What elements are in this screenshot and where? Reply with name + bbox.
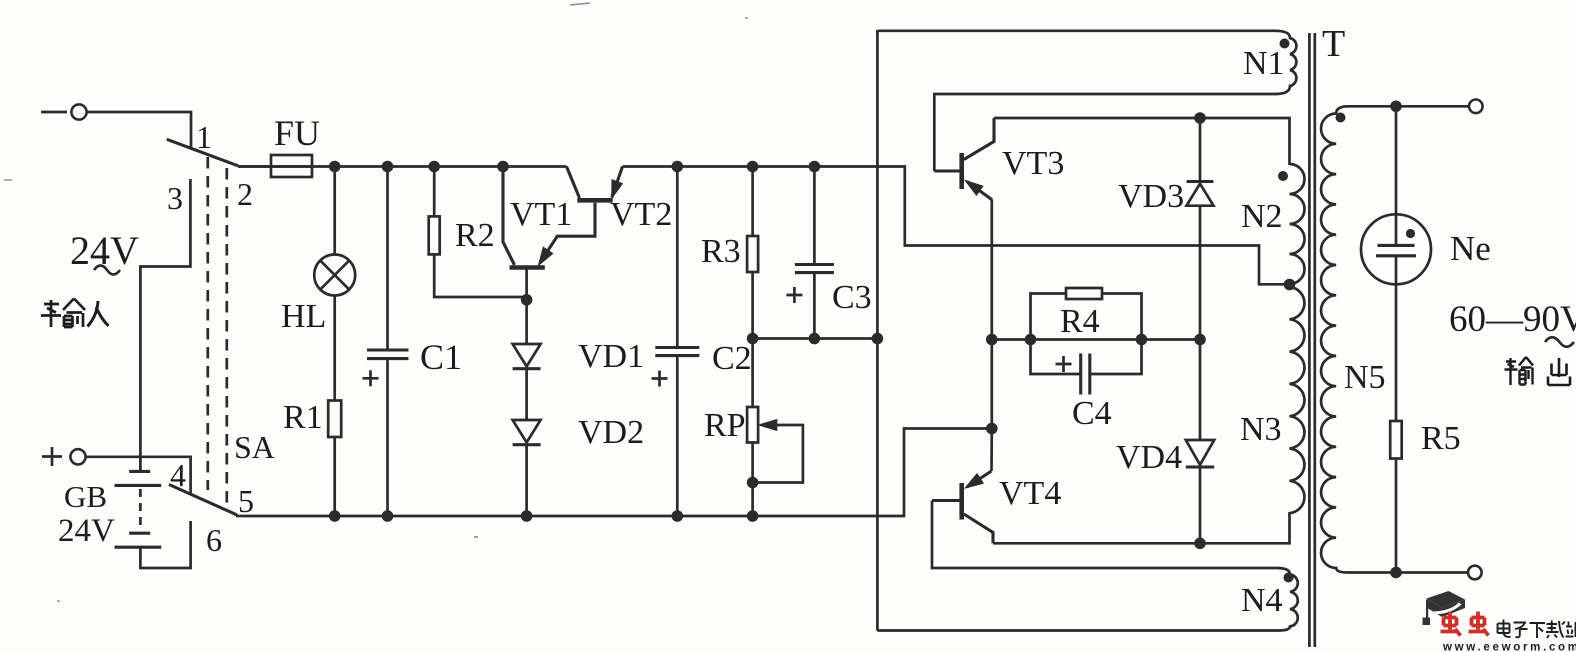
terminal output bottom (1468, 566, 1482, 580)
junction dot Ne top (1390, 101, 1402, 113)
wire VT4 collector rail to N3 bottom (993, 512, 1290, 543)
capacitor C2 (652, 167, 700, 517)
resistor R4 loop (1031, 288, 1142, 340)
resistor R1 (328, 401, 341, 517)
svg-text:VT3: VT3 (1002, 145, 1064, 182)
potentiometer RP (747, 339, 803, 517)
svg-text:R1: R1 (283, 399, 323, 436)
terminal output top (1469, 100, 1483, 114)
switch SA blade bottom (169, 485, 236, 517)
svg-text:6: 6 (206, 522, 222, 558)
svg-text:60—90V: 60—90V (1449, 299, 1576, 340)
winding N2 (1290, 164, 1305, 284)
capacitor C4 loop (1031, 340, 1142, 395)
svg-text:5: 5 (238, 483, 254, 519)
tilde 60-90V (1545, 337, 1574, 347)
svg-text:VD4: VD4 (1116, 439, 1182, 476)
core line left (1308, 33, 1311, 647)
feedback box left vertical (876, 30, 879, 631)
label shu input chinese (41, 299, 85, 328)
svg-text:4: 4 (170, 457, 186, 493)
junction dot N2 N3 tap (1284, 279, 1296, 291)
bottom rail (236, 429, 992, 517)
svg-text:VT4: VT4 (999, 475, 1061, 512)
watermark chongchong red (1441, 612, 1489, 636)
svg-text:R4: R4 (1060, 303, 1100, 340)
junction dot R5 bottom (1390, 567, 1402, 579)
mid rail right (992, 338, 1200, 341)
svg-text:R5: R5 (1421, 420, 1461, 457)
diode VD3 (1187, 118, 1214, 340)
svg-text:N5: N5 (1344, 359, 1386, 396)
svg-text:N3: N3 (1240, 411, 1282, 448)
svg-text:VD2: VD2 (578, 414, 644, 451)
switch SA contact 3 wire (140, 179, 190, 471)
junction dots top rail (329, 161, 820, 173)
watermark cap logo (1423, 591, 1466, 625)
svg-text:VD1: VD1 (578, 338, 644, 375)
phase dot N1 (1280, 39, 1290, 49)
svg-text:VT1: VT1 (510, 196, 572, 233)
junction dot RP wiper (747, 477, 759, 489)
svg-text:HL: HL (281, 298, 326, 335)
junction dot VD4 bottom (1194, 538, 1206, 550)
svg-text:VT2: VT2 (610, 196, 672, 233)
fuse FU (238, 155, 312, 177)
terminal input bottom plus (42, 447, 86, 466)
junction dots mid rail left (747, 333, 883, 345)
junction dots mid rail right (986, 334, 1206, 346)
svg-text:FU: FU (274, 113, 320, 153)
svg-text:T: T (1322, 23, 1345, 65)
junction dot emitter bus (986, 423, 998, 435)
switch SA coupling dashed line b (225, 168, 228, 503)
winding N1 (1275, 31, 1296, 94)
svg-text:2: 2 (237, 176, 253, 212)
diode VD4 (1186, 340, 1214, 544)
svg-text:1: 1 (196, 119, 212, 155)
svg-text:C3: C3 (832, 279, 872, 316)
switch SA contact 6 wire (140, 521, 190, 568)
terminal input top (41, 104, 87, 119)
svg-text:Ne: Ne (1450, 229, 1491, 268)
top rail (238, 167, 1286, 285)
svg-text:www.eeworm.com: www.eeworm.com (1442, 642, 1576, 652)
svg-text:VD3: VD3 (1118, 178, 1184, 215)
resistor R5 (1390, 421, 1402, 573)
phase dot N4 (1284, 573, 1294, 583)
svg-text:N4: N4 (1241, 582, 1283, 619)
transistor VT1 (503, 167, 595, 345)
svg-text:R3: R3 (701, 233, 741, 270)
wire emitter bus vertical (990, 200, 993, 472)
neon lamp Ne (1361, 106, 1431, 421)
transistor VT4 (932, 471, 993, 543)
wire VT3 collector rail (994, 118, 1290, 165)
feedback box top wire (877, 29, 1275, 32)
svg-text:C1: C1 (420, 337, 462, 377)
svg-text:RP: RP (704, 407, 746, 444)
junction dot VD3 top (1194, 112, 1206, 124)
tilde 24V (94, 266, 120, 275)
winding N3 (1290, 287, 1305, 513)
winding N4 (877, 568, 1297, 631)
wire output bottom (1348, 571, 1468, 574)
svg-text:N1: N1 (1243, 45, 1285, 82)
svg-text:C2: C2 (712, 340, 752, 377)
diode VD1 (513, 344, 541, 420)
core line right (1313, 33, 1316, 647)
junction dot VT1 base node (521, 294, 533, 306)
battery GB (115, 471, 162, 547)
resistor R3 (747, 167, 758, 339)
wire VT4 base to N4 top (932, 501, 1277, 569)
capacitor C3 (786, 167, 834, 339)
watermark site name (1498, 620, 1576, 639)
resistor R2 (429, 167, 527, 298)
phase dot N2 (1278, 171, 1288, 181)
lamp HL (314, 167, 355, 401)
label chu output chinese (1548, 358, 1570, 385)
diode VD2 (513, 420, 541, 516)
svg-text:3: 3 (167, 180, 183, 216)
wire input top to contact 1 (87, 112, 191, 148)
transistor VT3 (934, 118, 994, 200)
svg-text:SA: SA (234, 429, 275, 465)
wire N1 bottom to VT3 base (934, 94, 1277, 171)
svg-text:N2: N2 (1241, 198, 1283, 235)
label shu output chinese (1505, 357, 1534, 385)
switch SA coupling dashed line a (206, 157, 209, 490)
svg-text:GB: GB (64, 479, 107, 514)
mid rail left (753, 337, 878, 340)
svg-text:24V: 24V (58, 513, 115, 549)
transistor VT2 (567, 167, 623, 201)
label ru input chinese (88, 301, 109, 327)
wire output top (1348, 105, 1469, 108)
switch SA blade top (167, 139, 238, 166)
svg-text:R2: R2 (455, 217, 495, 254)
scan noise marks (4, 3, 748, 601)
wire input bottom to contact 4 (86, 457, 191, 494)
phase dot N5 (1336, 113, 1346, 123)
capacitor C1 (363, 167, 409, 517)
winding N5 (1321, 106, 1348, 572)
junction dots bottom rail (329, 510, 758, 522)
svg-text:C4: C4 (1072, 395, 1112, 432)
